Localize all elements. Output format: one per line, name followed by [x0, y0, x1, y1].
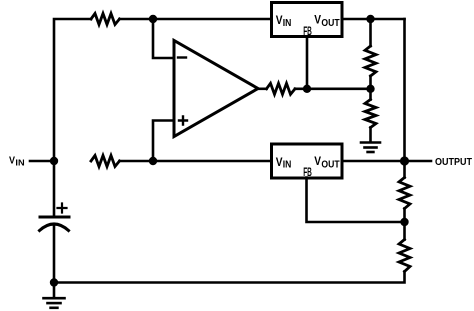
ground bottom left [44, 283, 65, 308]
resistor R4 divider upper [365, 46, 376, 76]
svg-text:IN: IN [283, 18, 292, 29]
svg-text:OUTPUT: OUTPUT [435, 157, 472, 168]
wire VIN input stub [30, 160, 54, 163]
svg-text:V: V [314, 154, 321, 168]
wire U2 VOUT to right rail [342, 18, 405, 21]
ground upper right [361, 143, 380, 153]
node VIN junction [50, 157, 58, 165]
wire op-amp output [258, 88, 267, 91]
wire divider top stub [369, 19, 372, 46]
wire output node to R6 [403, 161, 406, 178]
regulator U3 bottom [272, 144, 343, 179]
resistor R7 output divider lower [399, 240, 410, 272]
resistor R1 top [91, 14, 120, 25]
wire R6 to FB2 node [403, 209, 406, 240]
wire left vertical rail [54, 19, 91, 161]
node FB2 [400, 218, 408, 226]
wire R1 to U1 VIN [120, 18, 271, 21]
regulator U2 top [272, 3, 343, 39]
node inverting junction [149, 15, 157, 23]
svg-text:V: V [276, 13, 283, 27]
wire non-inverting input [153, 121, 173, 162]
wire U2 feedback pin [306, 38, 309, 89]
svg-text:V: V [276, 155, 283, 169]
wire R4 to node [369, 76, 372, 100]
wire R2 to U2 VIN [120, 160, 271, 163]
wire R3 to divider node [295, 88, 371, 91]
wire right vertical rail [403, 19, 406, 161]
resistor R3 op-amp output [267, 83, 296, 94]
net label VIN [9, 155, 25, 167]
resistor R6 output divider upper [399, 178, 410, 209]
resistor R5 divider lower [365, 100, 376, 128]
wire U3 feedback [307, 178, 405, 223]
wire U3 VOUT to output node [342, 160, 405, 163]
svg-text:IN: IN [15, 159, 24, 168]
wire R5 to ground [369, 128, 372, 142]
svg-text:V: V [314, 12, 321, 26]
svg-text:IN: IN [283, 160, 292, 171]
node VOUT top [366, 15, 374, 23]
capacitor C1 [40, 161, 70, 283]
svg-text:FB: FB [303, 24, 312, 38]
wire inverting input [153, 19, 173, 58]
node OUTPUT [400, 156, 409, 165]
node non-inverting junction [149, 157, 157, 165]
wire output stub [405, 160, 432, 163]
node bottom left [50, 278, 58, 286]
resistor R2 bottom [91, 156, 120, 167]
node divider mid [366, 85, 374, 93]
wire bottom return rail [54, 272, 405, 283]
op-amp U1 [174, 41, 258, 137]
node FB1 [303, 85, 311, 93]
svg-text:OUT: OUT [321, 160, 339, 171]
svg-text:OUT: OUT [321, 18, 339, 29]
